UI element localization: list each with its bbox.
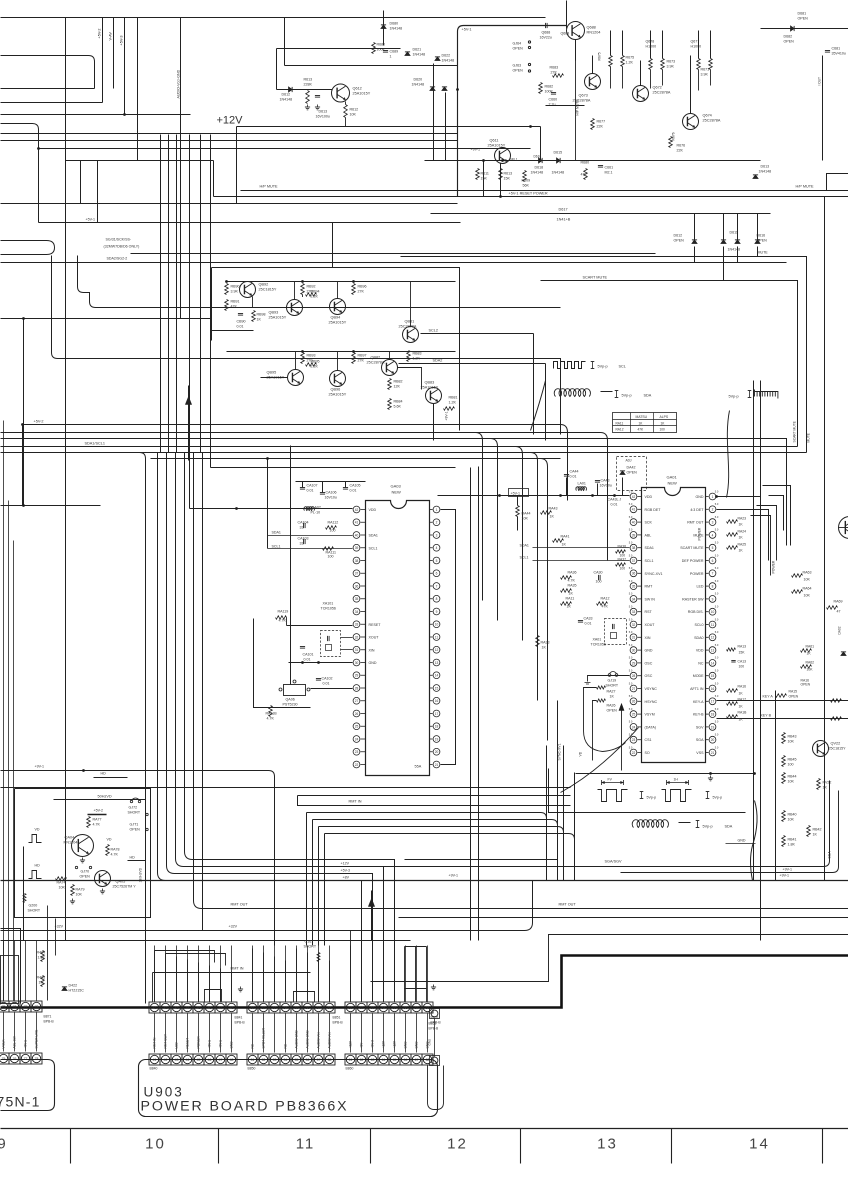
svg-text:SHORT: SHORT	[28, 909, 41, 913]
svg-text:ALPS: ALPS	[660, 415, 669, 419]
svg-text:SW IN: SW IN	[645, 597, 656, 601]
wire right H/P mute box	[827, 174, 848, 191]
capacitor CA101	[300, 646, 305, 648]
svg-text:GND: GND	[645, 649, 653, 653]
wire bus y222 +5V-1	[39, 222, 461, 224]
pin GA01 L38	[630, 544, 637, 551]
svg-text:AFT1 IN: AFT1 IN	[690, 687, 704, 691]
svg-text:21: 21	[711, 751, 715, 755]
svg-text:15: 15	[435, 686, 439, 690]
node U903 board box	[139, 1060, 438, 1117]
svg-text:67: 67	[415, 1006, 419, 1010]
svg-text:G161: G161	[305, 940, 314, 944]
svg-text:1K: 1K	[739, 536, 744, 540]
svg-text:9: 9	[712, 597, 714, 601]
svg-text:OPEN: OPEN	[801, 683, 811, 687]
node connector pin 58 row1	[324, 1002, 335, 1013]
wire stair verticals x80 x97	[80, 161, 82, 204]
waveform SDA wave	[554, 389, 590, 397]
svg-text:RESET: RESET	[186, 1038, 190, 1049]
svg-text:0.01: 0.01	[585, 622, 592, 626]
node connector pin 42 row2	[160, 1054, 171, 1065]
resistor RB95	[306, 363, 317, 367]
svg-text:ABL-SW: ABL-SW	[13, 1036, 17, 1048]
pin GA03 R3	[433, 532, 440, 539]
svg-text:OPEN: OPEN	[627, 471, 638, 475]
wire bundle y458	[151, 458, 561, 460]
transistor QB93	[287, 300, 303, 316]
svg-text:SHORT: SHORT	[128, 811, 141, 815]
resistor RA112	[326, 526, 337, 530]
svg-text:2.2K: 2.2K	[311, 295, 319, 299]
svg-text:BPB-B: BPB-B	[333, 1021, 344, 1025]
svg-text:1N4148: 1N4148	[728, 248, 741, 252]
svg-text:35: 35	[632, 585, 636, 589]
svg-text:15: 15	[711, 674, 715, 678]
pin GA01 L29	[630, 660, 637, 667]
svg-text:BB51: BB51	[429, 1022, 437, 1026]
resistor RB82	[388, 379, 392, 390]
pin GA03 L34	[353, 608, 360, 615]
node connector pin 64 row1	[378, 1002, 389, 1013]
svg-text:1: 1	[390, 55, 392, 59]
svg-text:6: 6	[712, 559, 714, 563]
wire rail into GA03 y467	[211, 467, 456, 469]
svg-text:25: 25	[632, 713, 636, 717]
svg-text:U903: U903	[144, 1085, 184, 1100]
svg-text:CA13: CA13	[738, 660, 747, 664]
wire RMT IN box	[298, 796, 571, 806]
svg-text:R612: R612	[350, 108, 359, 112]
svg-text:Q673: Q673	[579, 94, 588, 98]
svg-text:CA104: CA104	[298, 521, 309, 525]
diode D682	[791, 26, 795, 31]
svg-text:10: 10	[145, 1136, 166, 1153]
svg-text:R680: R680	[377, 43, 386, 47]
node connector pin 52 row1	[258, 1002, 269, 1013]
wire top right verticals	[566, 1, 568, 29]
svg-text:14: 14	[435, 674, 439, 678]
waveform FV	[601, 780, 603, 785]
svg-text:15K: 15K	[739, 651, 746, 655]
wire MUTE line right	[401, 257, 807, 453]
svg-text:RB91: RB91	[231, 300, 240, 304]
svg-text:GND: GND	[738, 839, 746, 843]
svg-text:GJ19: GJ19	[608, 679, 617, 683]
pin GA01 L31	[630, 634, 637, 641]
wire top bus y17	[1, 17, 546, 19]
svg-text:D618: D618	[535, 166, 544, 170]
svg-text:SHORT: SHORT	[304, 945, 317, 949]
wire waveform curve	[531, 381, 546, 431]
svg-text:3.9K: 3.9K	[667, 65, 675, 69]
svg-text:5.0: 5.0	[629, 643, 633, 647]
svg-text:5.0: 5.0	[715, 528, 719, 532]
svg-text:+5V-3: +5V-3	[341, 869, 351, 873]
svg-text:1N4148: 1N4148	[442, 59, 455, 63]
svg-text:RA69: RA69	[834, 600, 843, 604]
resistor R424	[41, 951, 45, 962]
node connector pin 44 row2	[182, 1054, 193, 1065]
wire connector drop 63	[372, 1014, 374, 1053]
wire y940 line	[1, 940, 411, 942]
svg-text:R675: R675	[598, 52, 602, 60]
ground QA05	[102, 889, 104, 892]
wire ruler line	[1, 1128, 848, 1130]
svg-text:D682: D682	[784, 35, 793, 39]
svg-text:1K: 1K	[813, 833, 818, 837]
node connector pin 66 row1	[400, 1002, 411, 1013]
svg-text:+8V: +8V	[343, 876, 350, 880]
svg-text:I OUT: I OUT	[818, 77, 822, 86]
wire connector drop 58	[329, 1014, 331, 1053]
svg-text:RA12: RA12	[616, 428, 624, 432]
resistor R677	[591, 119, 595, 130]
wire left block frame	[15, 789, 151, 918]
svg-text:R682: R682	[545, 85, 554, 89]
wire Q612 area	[277, 89, 333, 91]
wire vertical bus x145	[1, 453, 146, 1004]
svg-text:SDA1: SDA1	[520, 544, 529, 548]
node connector pin 66 row2	[400, 1054, 411, 1065]
pin GA03 L28	[353, 685, 360, 692]
svg-text:46: 46	[208, 1006, 212, 1010]
svg-text:GND: GND	[415, 1041, 419, 1049]
svg-text:1K: 1K	[610, 695, 615, 699]
pin GA03 R6	[433, 570, 440, 577]
svg-text:20: 20	[435, 750, 439, 754]
svg-text:26: 26	[632, 700, 636, 704]
svg-text:16V100u: 16V100u	[316, 115, 330, 119]
resistor RB84	[388, 399, 392, 410]
svg-text:SCL1: SCL1	[520, 556, 529, 560]
node connector pin 54 row1	[280, 1002, 291, 1013]
svg-text:RB82: RB82	[394, 380, 403, 384]
capacitor CA104	[303, 523, 305, 528]
pin GA03 L25	[353, 723, 360, 730]
svg-text:CA101: CA101	[303, 653, 314, 657]
svg-text:29: 29	[632, 661, 636, 665]
transistor Q611	[495, 148, 511, 164]
svg-text:+12V: +12V	[393, 1040, 397, 1048]
svg-text:NEW: NEW	[392, 490, 402, 495]
svg-text:LED: LED	[175, 1042, 179, 1049]
wire connector drop 67	[416, 1014, 418, 1053]
svg-text:5.0: 5.0	[629, 489, 633, 493]
wire connector drop 56	[307, 1014, 309, 1053]
svg-text:5.0: 5.0	[715, 720, 719, 724]
svg-text:SCART MUTE: SCART MUTE	[680, 546, 704, 550]
transistor QB92	[240, 282, 256, 298]
wire +32V drop to pin61	[350, 931, 352, 1002]
svg-text:100: 100	[330, 529, 336, 533]
pin GA03 R19	[433, 736, 440, 743]
pin GA01 R19	[709, 724, 716, 731]
svg-text:RB45: RB45	[788, 758, 797, 762]
pin GA03 L42	[353, 506, 360, 513]
svg-text:13: 13	[597, 1136, 618, 1153]
wire +5V-1 top vertical	[458, 26, 567, 197]
node connector pin 67 row2	[411, 1054, 422, 1065]
resistor RA25 row	[727, 546, 738, 550]
svg-text:5.0: 5.0	[629, 707, 633, 711]
node RA26	[597, 699, 606, 702]
svg-text:XA01: XA01	[593, 638, 602, 642]
node connector pin 56 row2	[302, 1054, 313, 1065]
resistor RB97	[352, 353, 356, 364]
svg-text:KEY A: KEY A	[763, 695, 774, 699]
node B851 single pins	[431, 1010, 438, 1017]
capacitor CA33	[578, 620, 583, 622]
svg-text:VDD: VDD	[369, 508, 377, 512]
svg-text:AUDIO-Vcc: AUDIO-Vcc	[328, 1032, 332, 1049]
diode row D611	[735, 240, 740, 244]
wire connector drop 46	[209, 1014, 211, 1053]
svg-text:TCR1056: TCR1056	[591, 643, 606, 647]
svg-text:33: 33	[632, 610, 636, 614]
wire QB interconnects	[247, 281, 249, 284]
svg-text:SCART MUTE: SCART MUTE	[583, 276, 608, 280]
svg-text:OPEN: OPEN	[784, 40, 795, 44]
svg-text:SDA0: SDA0	[694, 636, 703, 640]
wire VSYNC feed	[584, 688, 603, 752]
svg-text:MODE: MODE	[693, 674, 704, 678]
wire SDA1 feed vertical	[267, 459, 269, 549]
svg-text:ABL: ABL	[645, 533, 652, 537]
svg-text:Q677: Q677	[691, 40, 700, 44]
svg-text:5.0: 5.0	[715, 605, 719, 609]
pin GA01 R2	[709, 506, 716, 513]
svg-text:7: 7	[436, 584, 438, 588]
wire vertical x332	[332, 223, 334, 268]
pin GA03 L36	[353, 583, 360, 590]
waveform SDA bottom	[632, 820, 668, 828]
svg-text:RASTER SW: RASTER SW	[682, 597, 704, 601]
node GJ63	[528, 63, 530, 65]
svg-text:BPB-B: BPB-B	[44, 1020, 55, 1024]
wire diode column verticals	[433, 64, 435, 161]
svg-text:4: 4	[436, 546, 438, 550]
wire GND rail GA03	[289, 662, 353, 664]
resistor R675	[621, 56, 625, 67]
svg-text:RA63: RA63	[803, 571, 812, 575]
pin GA03 R20	[433, 748, 440, 755]
wire vertical left x65	[65, 18, 67, 941]
svg-text:5.0: 5.0	[629, 745, 633, 749]
pin GA03 L26	[353, 710, 360, 717]
pin GA03 R17	[433, 710, 440, 717]
wire connector risers group2	[252, 949, 254, 1002]
wire staircase above GA01	[601, 433, 608, 561]
svg-text:4: 4	[712, 533, 714, 537]
wire H/P MUTE line	[241, 190, 848, 192]
svg-text:5.0: 5.0	[715, 579, 719, 583]
svg-text:34: 34	[632, 597, 636, 601]
svg-text:D621: D621	[413, 48, 422, 52]
wire rmt in drop	[152, 973, 154, 1002]
svg-text:H/P MUTE: H/P MUTE	[260, 185, 279, 189]
svg-text:0.01: 0.01	[570, 475, 577, 479]
svg-text:+5V-1: +5V-1	[462, 28, 472, 32]
resistor key zigzags	[831, 699, 842, 703]
svg-text:3: 3	[436, 533, 438, 537]
wire connector drop 61	[350, 1014, 352, 1053]
svg-text:SO: SO	[645, 751, 650, 755]
svg-text:+5V-1: +5V-1	[24, 1040, 28, 1049]
svg-text:20: 20	[711, 738, 715, 742]
svg-text:HD: HD	[35, 864, 41, 868]
wire arrow up x188	[188, 386, 190, 461]
svg-text:D422: D422	[69, 984, 78, 988]
inductor LA01	[576, 487, 587, 491]
svg-text:2.2K: 2.2K	[311, 365, 319, 369]
node connector pin 61 row2	[345, 1054, 356, 1065]
pin GA03 R7	[433, 583, 440, 590]
svg-text:VD: VD	[579, 751, 583, 756]
svg-text:R677: R677	[597, 120, 606, 124]
wire Q611 vertical legs	[483, 161, 485, 197]
wire connector drop 48	[231, 1014, 233, 1053]
node GJ71	[146, 813, 148, 815]
svg-text:2: 2	[712, 508, 714, 512]
svg-text:61: 61	[349, 1006, 353, 1010]
wire connector drop 45	[198, 1014, 200, 1053]
svg-text:31: 31	[632, 636, 636, 640]
wire right stair from GA01	[717, 497, 761, 521]
svg-text:RA12: RA12	[601, 597, 610, 601]
wire vertical x202 to +32V	[202, 453, 204, 931]
svg-text:4.7K: 4.7K	[111, 853, 119, 857]
svg-text:22K: 22K	[597, 125, 604, 129]
wire connector drop 43	[176, 1014, 178, 1053]
svg-text:2: 2	[436, 521, 438, 525]
svg-text:RA24: RA24	[738, 530, 747, 534]
wire +12V rail	[237, 126, 541, 128]
svg-text:13: 13	[711, 649, 715, 653]
pin GA01 L22	[630, 749, 637, 756]
wire GA03 right vertical2	[470, 468, 472, 941]
resistor RA11	[561, 602, 572, 606]
wire arrow up bottom	[371, 891, 373, 941]
pin GA01 L30	[630, 647, 637, 654]
svg-text:H1000: H1000	[691, 45, 702, 49]
svg-text:Q612: Q612	[353, 87, 362, 91]
svg-text:4:3 DET: 4:3 DET	[690, 508, 704, 512]
diode D615	[557, 158, 561, 163]
wire vertical bus x176	[176, 135, 178, 453]
svg-text:1.2K: 1.2K	[626, 61, 634, 65]
svg-text:SGV: SGV	[696, 725, 704, 729]
svg-text:RA38: RA38	[618, 545, 627, 549]
node B851 small box	[428, 1066, 444, 1110]
svg-text:GND: GND	[230, 1041, 234, 1049]
svg-text:1K: 1K	[569, 592, 574, 596]
diode row 2	[721, 240, 726, 244]
svg-text:V-BLK: V-BLK	[2, 1039, 6, 1049]
svg-text:HSYNC: HSYNC	[645, 700, 658, 704]
node connector pin 47 row1	[215, 1002, 226, 1013]
svg-text:+12V: +12V	[217, 115, 244, 127]
svg-text:RA33: RA33	[541, 641, 550, 645]
svg-text:37: 37	[632, 559, 636, 563]
svg-text:5.0: 5.0	[629, 541, 633, 545]
svg-text:BPB-B: BPB-B	[235, 1021, 246, 1025]
svg-text:RA62: RA62	[806, 661, 815, 665]
wire connector drop 64	[383, 1014, 385, 1053]
svg-text:RA27: RA27	[607, 690, 616, 694]
svg-text:SDA2/SG2-2: SDA2/SG2-2	[107, 257, 128, 261]
svg-text:1.2K: 1.2K	[413, 357, 421, 361]
resistor RA62	[801, 665, 812, 669]
wire D680 box frame	[284, 18, 286, 66]
capacitor CA106	[320, 492, 325, 494]
wire +5V-1 RESET POWER line	[214, 196, 848, 198]
svg-text:NC: NC	[284, 1043, 288, 1048]
resistor RV22	[817, 779, 821, 790]
wire Q611 rail y160	[425, 160, 761, 162]
svg-text:CA103: CA103	[298, 537, 309, 541]
svg-text:10: 10	[435, 623, 439, 627]
svg-text:DA02: DA02	[838, 626, 842, 634]
resistor RA111	[323, 547, 334, 551]
wire connector drop 68	[427, 1014, 429, 1053]
wire H/P MUTE vertical	[575, 61, 577, 161]
svg-text:35V410u: 35V410u	[832, 52, 846, 56]
svg-text:10K: 10K	[804, 594, 811, 598]
svg-text:LA01: LA01	[578, 482, 586, 486]
svg-text:5.0: 5.0	[629, 669, 633, 673]
capacitor CA30	[598, 575, 600, 580]
wire right vertical x825	[761, 197, 825, 881]
pin GA03 R18	[433, 723, 440, 730]
svg-text:4.7K: 4.7K	[279, 619, 287, 623]
wire connector drop 41	[154, 1014, 156, 1053]
svg-text:5Vp-p: 5Vp-p	[647, 796, 657, 800]
svg-text:18: 18	[435, 725, 439, 729]
svg-text:1K: 1K	[739, 523, 744, 527]
resistor RB98	[252, 311, 256, 322]
svg-text:R425: R425	[37, 976, 46, 980]
svg-text:RN1204: RN1204	[64, 841, 78, 845]
svg-text:D611: D611	[730, 231, 738, 235]
svg-text:PST5230: PST5230	[283, 703, 298, 707]
svg-text:OPEN: OPEN	[513, 69, 524, 73]
svg-text:5.0: 5.0	[715, 669, 719, 673]
svg-text:CS1: CS1	[645, 738, 652, 742]
svg-text:VD: VD	[35, 828, 40, 832]
svg-text:47K: 47K	[231, 305, 238, 309]
pin GA01 L39	[630, 532, 637, 539]
wire connector drop 44	[187, 1014, 189, 1053]
svg-text:CA106: CA106	[326, 491, 337, 495]
svg-text:R676: R676	[677, 144, 686, 148]
svg-text:100: 100	[328, 555, 334, 559]
svg-text:CA105: CA105	[350, 484, 361, 488]
svg-text:21: 21	[435, 763, 439, 767]
svg-text:RB81: RB81	[449, 396, 458, 400]
diode D621	[405, 52, 410, 56]
wire bundle y452	[1, 452, 807, 454]
wire bus y318	[1, 318, 212, 320]
wire OSC pin28 to gnd	[588, 676, 630, 682]
wire pin bridge g3	[405, 988, 427, 990]
svg-text:5.0: 5.0	[629, 681, 633, 685]
svg-text:19: 19	[435, 737, 439, 741]
svg-text:28: 28	[632, 674, 636, 678]
svg-text:QB83: QB83	[425, 381, 435, 385]
svg-text:5.0: 5.0	[629, 592, 633, 596]
svg-text:RA11B: RA11B	[266, 712, 278, 716]
